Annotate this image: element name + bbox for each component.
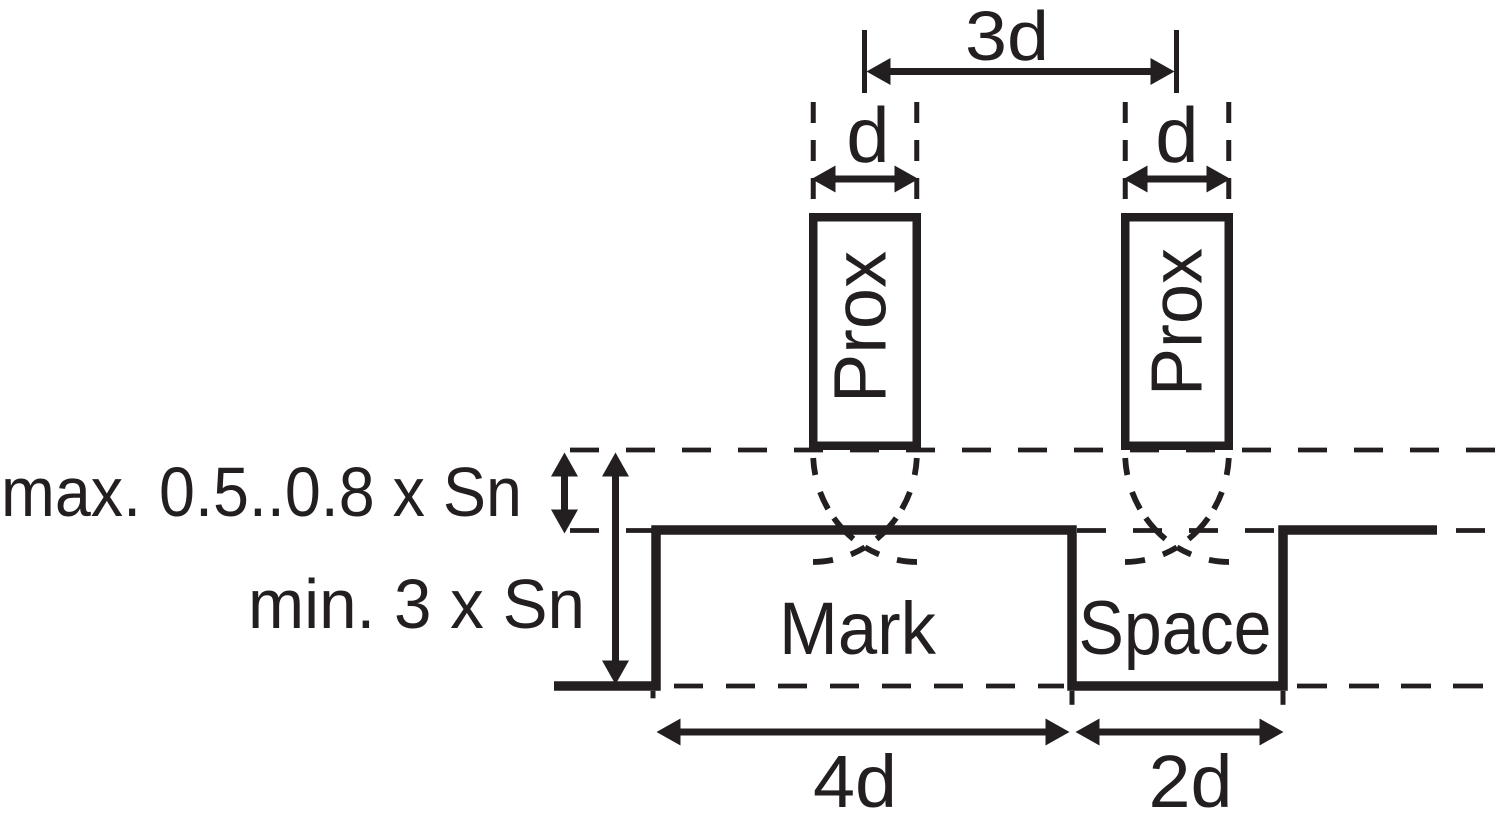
target profile solid polyline (baseline, mark, space): [554, 530, 1437, 686]
bottom level dashed line under mark: [674, 684, 1064, 689]
right sensor right edge extension dashed line: [1226, 102, 1231, 213]
extension tick below mark-to-space step: [1070, 691, 1075, 705]
mark level dashed line left of step: [570, 528, 653, 533]
3d dimension right tick: [1174, 30, 1179, 93]
4d dimension double arrow: [657, 719, 1070, 746]
left sensor field curve from right corner: [813, 458, 917, 562]
svg-text:d: d: [846, 91, 889, 179]
svg-text:min. 3 x Sn: min. 3 x Sn: [248, 565, 585, 643]
mark level dashed line across space gap: [1077, 528, 1278, 533]
sensor face dashed reference line: [570, 448, 1500, 453]
extension tick below space-to-mark step: [1281, 691, 1286, 705]
left sensor field curve from left corner: [813, 458, 917, 562]
min 3 Sn vertical double arrow: [602, 453, 629, 685]
svg-text:Prox: Prox: [819, 251, 902, 403]
right d dimension double arrow: [1124, 166, 1231, 193]
svg-text:Prox: Prox: [1138, 248, 1218, 396]
right sensor left edge extension dashed line: [1123, 102, 1128, 213]
left d dimension double arrow: [812, 166, 919, 193]
svg-text:d: d: [1155, 91, 1198, 179]
right sensor field curve from left corner: [1125, 458, 1229, 562]
3d dimension double arrow: [867, 58, 1175, 85]
prox sensor right body: [1125, 217, 1229, 446]
mark level dashed line right end: [1456, 528, 1500, 533]
svg-text:3d: 3d: [965, 0, 1049, 75]
max 0.5-0.8 Sn vertical double arrow: [551, 453, 578, 534]
left sensor right edge extension dashed line: [914, 102, 919, 213]
2d dimension double arrow: [1076, 719, 1284, 746]
left sensor left edge extension dashed line: [811, 102, 816, 213]
extension tick below left step: [651, 691, 656, 699]
svg-text:max. 0.5..0.8 x Sn: max. 0.5..0.8 x Sn: [1, 453, 522, 531]
svg-text:4d: 4d: [813, 740, 897, 823]
right sensor field curve from right corner: [1125, 458, 1229, 562]
svg-text:Mark: Mark: [779, 587, 937, 670]
3d dimension left tick: [862, 30, 867, 93]
svg-text:Space: Space: [1079, 586, 1272, 671]
bottom level dashed line right of space: [1297, 684, 1492, 689]
svg-text:2d: 2d: [1149, 740, 1233, 823]
prox sensor left body: [813, 217, 917, 446]
